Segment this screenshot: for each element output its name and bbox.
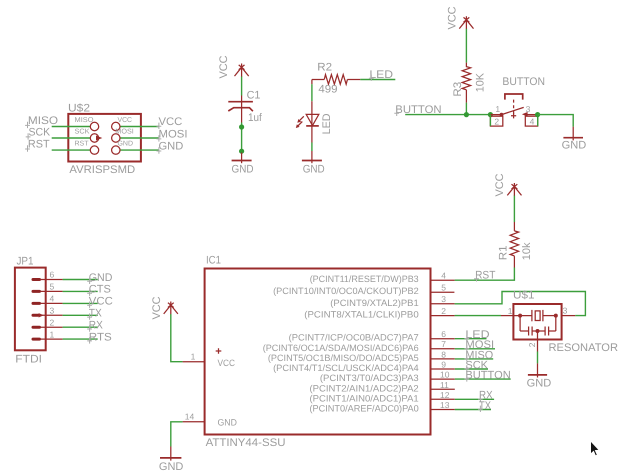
crystal left lead: [513, 315, 532, 317]
pin 11 lead: [431, 388, 455, 390]
capacitor C1 plate bottom chamfered: [228, 108, 253, 112]
svg-text:1: 1: [50, 329, 55, 339]
svg-text:2: 2: [527, 342, 537, 347]
supply symbol VCC: [235, 64, 249, 78]
switch S1 pin 1 lead: [490, 114, 501, 116]
capacitor C1 top lead: [241, 96, 243, 123]
label origin tick GND: [157, 147, 162, 153]
wire pin 14 to GND: [171, 422, 183, 447]
junction dot at R3: [464, 112, 469, 117]
connector U$2 body: [68, 114, 141, 162]
pin pad 4: [33, 302, 40, 305]
wire net SCK: [455, 368, 488, 370]
IC1 pin 2 lead: [431, 315, 455, 317]
svg-text:R3: R3: [452, 82, 464, 97]
wire net RST left: [52, 149, 91, 151]
svg-text:(PCINT3/T0/ADC3)PA3: (PCINT3/T0/ADC3)PA3: [320, 373, 419, 383]
wire VCC to R1: [513, 196, 515, 222]
svg-text:GND: GND: [159, 461, 184, 473]
svg-text:VCC: VCC: [151, 296, 163, 319]
svg-text:3: 3: [563, 305, 568, 315]
svg-text:VCC: VCC: [494, 173, 506, 196]
SECTION: R2 and LED column: [296, 62, 396, 176]
IC1 pin 5 lead: [431, 291, 455, 293]
resistor R1 top lead: [513, 222, 515, 231]
svg-text:3: 3: [50, 306, 55, 316]
switch lever: [502, 107, 524, 114]
svg-text:13: 13: [440, 400, 450, 410]
wire net SCK left: [52, 137, 91, 139]
pin pad 2: [33, 326, 40, 329]
resonator U$1 body: [513, 304, 561, 340]
wire LED to GND: [311, 143, 313, 152]
label origin tick CTS: [87, 290, 92, 296]
pin circle VCC: [112, 122, 120, 130]
pin 1 lead: [41, 338, 63, 340]
label origin tick MOSI: [157, 135, 162, 141]
SECTION: FTDI header JP1: [15, 256, 113, 366]
wire net RTS: [63, 338, 98, 340]
svg-text:3: 3: [526, 104, 531, 114]
pin 2 lead: [41, 326, 63, 328]
svg-text:MISO: MISO: [28, 115, 59, 127]
LED emission arrow 2: [297, 122, 302, 127]
wire net LED: [360, 79, 395, 81]
pin circle GND: [112, 146, 120, 154]
svg-text:VCC: VCC: [218, 358, 236, 368]
svg-text:SCK: SCK: [29, 126, 51, 138]
wire net CTS: [63, 290, 98, 292]
junction dot at switch pin 3: [535, 112, 540, 117]
svg-text:U$1: U$1: [513, 290, 535, 302]
pin circle SCK: [90, 134, 98, 142]
pin circle MISO: [90, 122, 98, 130]
svg-text:2: 2: [441, 306, 446, 316]
wire net BUTTON horizontal: [405, 114, 490, 116]
wire resonator pin2 to GND: [537, 352, 539, 364]
wire C1 to GND: [241, 123, 243, 153]
svg-text:TX: TX: [89, 308, 103, 320]
wire corner to R2 left: [312, 80, 324, 85]
label origin tick RST: [474, 275, 479, 281]
supply symbol VCC left: [164, 302, 178, 315]
resistor R3 bottom lead: [465, 90, 467, 103]
wire switch to GND: [538, 115, 574, 127]
pin pad 6: [33, 278, 40, 281]
ground symbol GND: [537, 363, 539, 377]
junction dot resonator pin1: [518, 314, 522, 318]
svg-text:JP1: JP1: [17, 256, 34, 268]
LED emission arrow 1: [299, 116, 304, 121]
svg-text:(PCINT9/XTAL2)PB1: (PCINT9/XTAL2)PB1: [330, 298, 418, 308]
LED D1 cathode bar: [306, 125, 319, 127]
svg-text:1: 1: [508, 306, 513, 316]
label origin tick LED: [369, 75, 374, 81]
svg-text:R2: R2: [317, 62, 332, 74]
svg-text:GND: GND: [218, 417, 238, 427]
ground symbol GND: [170, 447, 172, 461]
wire net TX: [63, 314, 98, 316]
svg-text:VCC: VCC: [89, 296, 113, 308]
pin 14 lead: [183, 421, 205, 423]
wire net MOSI right: [120, 137, 159, 139]
crystal plate right: [542, 310, 544, 321]
svg-text:2: 2: [494, 117, 499, 127]
svg-text:FTDI: FTDI: [15, 354, 42, 366]
wire R2 to LED anode: [311, 84, 313, 101]
label origin tick RX: [87, 325, 92, 331]
wire net MISO: [455, 358, 493, 360]
label origin tick GND: [87, 278, 92, 284]
wire net BUTTON: [455, 378, 511, 380]
internal cap left lead: [520, 330, 529, 332]
label origin tick RST: [25, 145, 30, 151]
svg-text:LED: LED: [321, 113, 333, 134]
svg-text:VCC: VCC: [218, 55, 230, 78]
wire net RST: [455, 268, 515, 281]
svg-text:10K: 10K: [475, 72, 487, 92]
label origin tick VCC: [87, 302, 92, 308]
svg-text:GND: GND: [159, 141, 184, 153]
pin 6 lead: [431, 338, 455, 340]
IC1 body: [205, 269, 431, 435]
svg-text:4: 4: [50, 294, 55, 304]
ground symbol GND: [311, 151, 313, 163]
internal cap right lead: [549, 330, 556, 332]
svg-text:CTS: CTS: [89, 284, 111, 296]
wire XTAL2 net to resonator pin 3: [455, 292, 586, 316]
pin 4 lead: [41, 302, 63, 304]
svg-text:10: 10: [440, 370, 450, 380]
svg-text:VCC: VCC: [447, 6, 459, 29]
label origin tick MISO: [25, 122, 30, 128]
mouse cursor arrow: [590, 441, 599, 457]
pin 12 lead: [431, 398, 455, 400]
resonator pin 2 lead: [537, 331, 539, 352]
svg-text:ATTINY44-SSU: ATTINY44-SSU: [206, 437, 286, 449]
wire net RX: [63, 326, 98, 328]
capacitor C1 plate top: [228, 101, 253, 103]
svg-text:MOSI: MOSI: [159, 128, 188, 140]
connector JP1 body: [15, 268, 46, 351]
SECTION: R3 and BUTTON switch: [394, 6, 586, 151]
pin direction arrow SCK row: [96, 136, 102, 141]
svg-text:RST: RST: [475, 269, 496, 281]
junction dot upper: [239, 124, 244, 129]
LED anode lead: [311, 101, 313, 126]
pin 1 lead: [183, 361, 205, 363]
label origin tick BUTTON: [464, 375, 469, 381]
switch pin cross: [511, 113, 516, 118]
svg-text:LED: LED: [369, 69, 393, 81]
ground symbol GND: [241, 153, 243, 164]
crystal body rect: [535, 311, 540, 321]
internal center link: [532, 330, 545, 332]
pin pad 3: [33, 314, 38, 317]
svg-text:11: 11: [440, 380, 449, 390]
svg-text:14: 14: [185, 412, 195, 422]
label origin tick MISO: [464, 355, 469, 361]
svg-text:GND: GND: [118, 141, 134, 148]
svg-text:SCK: SCK: [75, 128, 90, 135]
label origin tick TX: [87, 313, 92, 319]
svg-text:(PCINT0/AREF/ADC0)PA0: (PCINT0/AREF/ADC0)PA0: [310, 404, 419, 414]
svg-text:VCC: VCC: [118, 117, 133, 124]
svg-text:(PCINT7/ICP/OC0B/ADC7)PA7: (PCINT7/ICP/OC0B/ADC7)PA7: [289, 333, 419, 343]
switch actuator staple: [505, 94, 523, 100]
svg-text:GND: GND: [562, 139, 587, 151]
IC1 plus mark: [216, 348, 222, 354]
supply symbol VCC: [507, 183, 521, 196]
svg-text:RESONATOR: RESONATOR: [549, 342, 619, 354]
label origin tick MOSI: [464, 345, 469, 351]
wire net VCC right: [120, 126, 159, 128]
pin 13 lead: [431, 409, 455, 411]
switch pin box 2: [490, 116, 502, 126]
pin 9 lead: [431, 368, 455, 370]
SECTION: resonator U$1: [431, 290, 619, 390]
wire net LED: [455, 338, 487, 340]
svg-text:(PCINT8/XTAL1/CLKI)PB0: (PCINT8/XTAL1/CLKI)PB0: [304, 310, 418, 320]
svg-text:VCC: VCC: [159, 116, 183, 128]
svg-text:AVRISPSMD: AVRISPSMD: [69, 164, 135, 176]
svg-text:12: 12: [440, 390, 450, 400]
junction dot center pin2: [536, 329, 540, 333]
LED cathode lead: [311, 126, 313, 142]
SECTION: mouse cursor: [590, 441, 599, 457]
svg-text:9: 9: [441, 360, 446, 370]
wire net MISO left: [52, 126, 91, 128]
junction dot resonator pin3: [554, 314, 558, 318]
svg-text:U$2: U$2: [68, 102, 90, 114]
wire net VCC: [63, 302, 98, 304]
wire pin3 to pin4: [537, 115, 539, 127]
pin 8 lead: [431, 358, 455, 360]
pin 3 lead: [41, 314, 63, 316]
resistor R3 zigzag vertical: [462, 63, 470, 90]
SECTION: R1 RST pullup: [431, 173, 533, 281]
cap branch left drop: [519, 316, 521, 331]
pin 10 lead: [431, 378, 455, 380]
label origin tick RX: [478, 395, 483, 401]
svg-text:4: 4: [530, 117, 535, 127]
resistor R2 zigzag: [324, 75, 347, 85]
svg-text:6: 6: [50, 270, 55, 280]
switch actuator dashed link: [513, 100, 515, 116]
wire net GND: [63, 279, 98, 281]
label origin tick RTS: [87, 337, 92, 343]
switch pin box 4: [525, 116, 537, 126]
label origin tick TX: [478, 406, 483, 412]
svg-text:RST: RST: [75, 141, 90, 148]
svg-text:4: 4: [441, 271, 446, 281]
svg-text:1: 1: [191, 352, 196, 362]
resistor R2 right lead: [347, 79, 360, 81]
switch contact dot pin 1: [500, 113, 504, 117]
svg-text:(PCINT6/OC1A/SDA/MOSI/ADC6)PA6: (PCINT6/OC1A/SDA/MOSI/ADC6)PA6: [263, 343, 419, 353]
svg-text:RTS: RTS: [89, 331, 112, 343]
svg-text:10k: 10k: [521, 242, 533, 260]
svg-text:(PCINT4/T1/SCL/USCK/ADC4)PA4: (PCINT4/T1/SCL/USCK/ADC4)PA4: [273, 363, 419, 373]
pin 7 lead: [431, 348, 455, 350]
svg-text:(PCINT2/AIN1/ADC2)PA2: (PCINT2/AIN1/ADC2)PA2: [310, 383, 419, 393]
junction dot at switch pin 1: [488, 112, 493, 117]
internal cap left plates: [529, 327, 533, 336]
SECTION: IC1 ATTINY44: [151, 255, 511, 473]
switch S1 pin 3 lead: [526, 114, 538, 116]
svg-text:5: 5: [441, 283, 446, 293]
svg-text:GND: GND: [232, 163, 254, 175]
crystal plate left: [531, 310, 533, 321]
svg-text:499: 499: [318, 83, 337, 95]
label origin tick LED: [464, 335, 469, 341]
label origin tick BUTTON: [394, 110, 399, 116]
wire XTAL1 net to resonator pin 1: [455, 315, 501, 317]
svg-text:IC1: IC1: [206, 255, 221, 267]
internal cap right plates: [545, 327, 549, 336]
svg-text:8: 8: [441, 349, 446, 359]
IC1 pin 3 lead: [431, 303, 455, 305]
wire VCC to C1: [241, 77, 243, 96]
wire pin1 to pin2: [489, 115, 491, 127]
svg-text:BUTTON: BUTTON: [465, 370, 510, 382]
svg-text:(PCINT1/AIN0/ADC1)PA1: (PCINT1/AIN0/ADC1)PA1: [310, 394, 419, 404]
label origin tick SCK: [26, 133, 31, 139]
wire net RX: [455, 398, 494, 400]
crystal right lead: [543, 315, 556, 317]
switch contact arrow pin 3: [522, 112, 528, 117]
pin circle MOSI: [112, 134, 120, 142]
svg-text:GND: GND: [527, 377, 552, 389]
svg-text:5: 5: [50, 282, 55, 292]
wire net TX: [455, 409, 491, 411]
pin pad 1: [33, 338, 40, 341]
resistor R1 bottom lead: [513, 256, 515, 267]
svg-text:(PCINT10/INT0/OC0A/CKOUT)PB2: (PCINT10/INT0/OC0A/CKOUT)PB2: [273, 286, 419, 296]
wire VCC to R3: [465, 29, 467, 63]
svg-text:C1: C1: [247, 89, 261, 101]
pin pad 3 arrow: [39, 313, 44, 317]
junction dot lower: [239, 149, 244, 154]
svg-text:GND: GND: [89, 272, 113, 284]
wire net MOSI: [455, 348, 495, 350]
svg-text:(PCINT5/OC1B/MISO/DO/ADC5)PA5: (PCINT5/OC1B/MISO/DO/ADC5)PA5: [268, 353, 419, 363]
svg-text:6: 6: [441, 329, 446, 339]
LED D1 triangle: [306, 114, 319, 125]
label origin tick SCK: [464, 365, 469, 371]
resonator pin 3 lead: [562, 315, 576, 317]
pin pad 5: [33, 290, 40, 293]
svg-text:1uf: 1uf: [248, 112, 263, 124]
wire VCC to pin 1: [171, 314, 183, 362]
svg-text:BUTTON: BUTTON: [502, 76, 545, 88]
resonator pin 1 lead: [501, 315, 513, 317]
svg-text:MISO: MISO: [75, 117, 95, 124]
pin circle RST: [90, 146, 98, 154]
svg-text:MOSI: MOSI: [115, 128, 134, 135]
cap branch right drop: [555, 316, 557, 331]
wire R3 to BUTTON net: [465, 103, 467, 115]
resistor R1 zigzag vertical: [510, 231, 518, 256]
svg-text:RST: RST: [28, 139, 50, 151]
wire net GND right: [120, 149, 159, 151]
supply symbol VCC: [459, 16, 473, 29]
svg-text:1: 1: [495, 104, 500, 114]
svg-text:3: 3: [441, 294, 446, 304]
pin 6 lead: [41, 279, 63, 281]
svg-text:GND: GND: [303, 163, 325, 175]
ground symbol GND: [572, 127, 574, 141]
pin 5 lead: [41, 290, 63, 292]
svg-text:RX: RX: [89, 320, 104, 332]
SECTION: AVRISP header U$2: [25, 102, 187, 176]
label origin tick VCC: [157, 123, 162, 129]
svg-text:R1: R1: [498, 245, 510, 260]
svg-text:2: 2: [50, 317, 55, 327]
SECTION: capacitor C1 column: [218, 55, 263, 175]
IC1 pin 4 lead: [431, 279, 455, 281]
svg-text:(PCINT11/RESET/DW)PB3: (PCINT11/RESET/DW)PB3: [310, 274, 419, 284]
svg-text:7: 7: [441, 339, 446, 349]
